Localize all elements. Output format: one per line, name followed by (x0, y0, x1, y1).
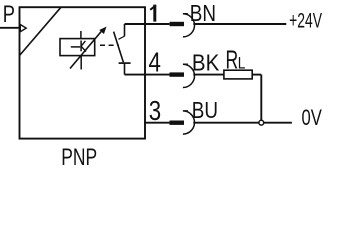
switch contact S1 (114, 24, 131, 75)
socket 4 (183, 64, 195, 87)
wire RL to corner (252, 74, 261, 76)
wire BK (193, 74, 224, 76)
dashed actuation link (100, 44, 119, 46)
svg-text:BN: BN (190, 0, 216, 26)
pin 1 label (150, 5, 155, 22)
corner diagonal (20, 7, 62, 55)
resistor RL (224, 70, 252, 79)
svg-text:L: L (238, 54, 246, 72)
svg-text:3: 3 (149, 95, 161, 126)
svg-text:BK: BK (192, 50, 220, 76)
plug pin 1 (170, 22, 184, 26)
wire P input (0, 27, 20, 29)
svg-text:PNP: PNP (61, 144, 97, 168)
wire BU / 0V (193, 122, 292, 124)
svg-text:0V: 0V (302, 105, 322, 130)
wire 3 to plug (145, 122, 170, 124)
socket 1 (183, 14, 195, 37)
wire 4 to plug (145, 74, 170, 76)
socket 3 (183, 111, 195, 134)
adjustment arrow (70, 27, 106, 68)
svg-text:R: R (226, 44, 239, 74)
wire BN (193, 23, 286, 25)
junction node (259, 120, 264, 125)
sensor body box (20, 7, 146, 138)
plug pin 3 (170, 120, 185, 124)
input arrowhead (20, 25, 26, 32)
wire down to 0V (260, 75, 262, 121)
svg-text:P: P (3, 1, 15, 28)
svg-text:+24V: +24V (289, 9, 322, 32)
wire pin3 inside (144, 122, 145, 124)
svg-text:4: 4 (149, 46, 161, 77)
wire pin1 inside (125, 23, 146, 25)
svg-text:BU: BU (192, 97, 218, 123)
transducer element E1 (60, 31, 95, 70)
plug pin 4 (170, 72, 185, 76)
wire pin4 inside (125, 74, 146, 76)
wire 1 to plug (145, 23, 170, 25)
